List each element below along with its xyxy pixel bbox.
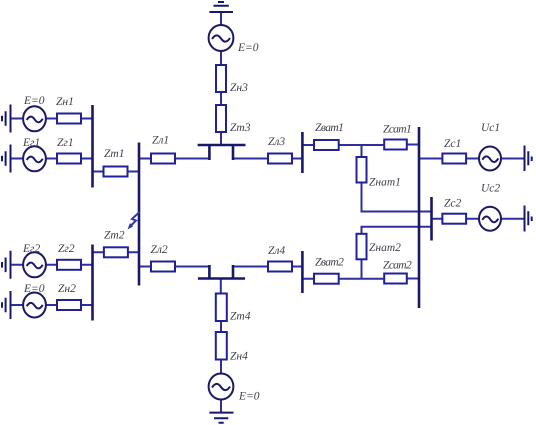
svg-text:Zн3: Zн3	[230, 82, 248, 94]
svg-text:Zт2: Zт2	[104, 230, 125, 242]
svg-text:Zсат1: Zсат1	[383, 124, 411, 136]
svg-text:Zн4: Zн4	[230, 351, 248, 363]
svg-text:Zн1: Zн1	[56, 96, 74, 108]
svg-text:Zсат2: Zсат2	[383, 260, 412, 272]
svg-text:Zват1: Zват1	[315, 122, 343, 134]
svg-text:Zнат1: Zнат1	[369, 177, 401, 189]
svg-text:E=0: E=0	[23, 95, 45, 107]
svg-text:Zл3: Zл3	[268, 136, 285, 148]
svg-text:Zл4: Zл4	[268, 245, 285, 257]
svg-text:Zс2: Zс2	[444, 198, 462, 210]
svg-text:Zт4: Zт4	[230, 311, 251, 323]
svg-text:Zг2: Zг2	[58, 243, 75, 255]
svg-text:Zл1: Zл1	[152, 135, 169, 147]
svg-text:Zг1: Zг1	[57, 137, 74, 149]
svg-text:Uс2: Uс2	[481, 183, 500, 195]
svg-text:Zн2: Zн2	[58, 283, 76, 295]
svg-text:E=0: E=0	[237, 42, 259, 54]
svg-text:Zт3: Zт3	[230, 122, 251, 134]
svg-text:E=0: E=0	[23, 283, 45, 295]
svg-text:Zват2: Zват2	[315, 257, 344, 269]
svg-text:Zнат2: Zнат2	[369, 242, 401, 254]
svg-text:Zл2: Zл2	[151, 244, 168, 256]
svg-text:Zс1: Zс1	[444, 138, 461, 150]
svg-text:Eг2: Eг2	[22, 243, 41, 255]
svg-text:Zт1: Zт1	[104, 148, 124, 160]
svg-text:Uс1: Uс1	[481, 122, 500, 134]
svg-text:E=0: E=0	[238, 391, 260, 403]
svg-text:Eг1: Eг1	[22, 137, 40, 149]
